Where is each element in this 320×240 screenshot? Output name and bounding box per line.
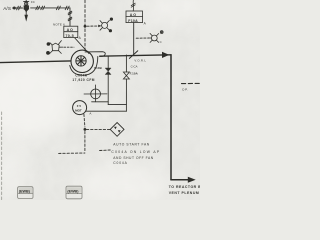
fan C004A scroll <box>70 52 105 76</box>
wire air supply stub <box>13 6 23 10</box>
svg-text:AUTO START FAN: AUTO START FAN <box>113 143 149 147</box>
wire motor link <box>86 110 126 112</box>
note text block <box>111 143 160 165</box>
flow arrow on duct <box>162 52 169 58</box>
svg-text:A/S: A/S <box>3 6 11 11</box>
svg-text:F10B: F10B <box>94 66 102 70</box>
svg-text:AO: AO <box>130 13 137 17</box>
interlock diamond <box>110 123 124 137</box>
svg-text:F.10A: F.10A <box>130 72 139 76</box>
svg-text:MOT: MOT <box>75 108 82 112</box>
junction dot signal <box>84 128 87 131</box>
controller box F10A <box>126 11 143 23</box>
match line dashed left edge <box>1 112 3 200</box>
damper actuator D2 <box>100 18 113 32</box>
paper background <box>0 0 200 200</box>
connection slash <box>129 51 137 59</box>
wire dashed signal line top <box>84 0 86 50</box>
valve F10A <box>123 72 129 79</box>
motor circle F5 MOT <box>73 101 87 115</box>
wire duct drop <box>170 55 172 180</box>
svg-text:C-P.: C-P. <box>182 87 188 91</box>
wire branch F10A <box>125 55 127 111</box>
svg-text:(EWB): (EWB) <box>67 189 79 193</box>
svg-text:VENT PLENUM: VENT PLENUM <box>169 191 200 195</box>
stamp EWB 1 <box>18 187 33 199</box>
svg-text:C004A: C004A <box>113 161 127 165</box>
pressure regulator PCV <box>24 0 29 12</box>
svg-text:F10A: F10A <box>128 19 138 23</box>
wire duct outlet run <box>171 179 189 181</box>
svg-text:NOTE 6: NOTE 6 <box>53 22 65 26</box>
svg-text:FC: FC <box>31 0 35 4</box>
svg-text:17,920 CFM: 17,920 CFM <box>72 78 95 82</box>
stamp EWB 2 <box>66 186 82 199</box>
wire control line to duct <box>133 23 135 55</box>
wire dashed link to D3 <box>136 37 148 39</box>
wire ticked line above box F10A <box>131 0 135 11</box>
wire dashed link to D2 <box>87 25 102 28</box>
fan C004A wheel <box>71 50 93 72</box>
wire dashed signal from motor <box>59 114 111 153</box>
wire actuator link <box>75 38 89 54</box>
wire dashed link to D1 <box>64 46 74 48</box>
vent arrow <box>25 12 27 20</box>
svg-text:AO: AO <box>67 28 74 32</box>
damper actuator D3 <box>149 31 163 43</box>
damper actuator D1 <box>47 41 64 55</box>
svg-text:C: C <box>160 40 162 44</box>
junction dot <box>84 25 87 28</box>
wire C-P dashed stub <box>182 82 201 84</box>
svg-text:(EWB): (EWB) <box>19 190 31 194</box>
svg-text:C-CA: C-CA <box>131 65 138 69</box>
wire main discharge duct <box>100 55 171 56</box>
svg-text:TO REACTOR B: TO REACTOR B <box>169 185 200 189</box>
svg-text:70-5: 70-5 <box>65 34 74 38</box>
wire inlet duct <box>0 61 71 63</box>
svg-text:AND SHUT OFF FAN: AND SHUT OFF FAN <box>113 156 153 160</box>
test crosshair <box>84 85 107 102</box>
svg-text:V.O.R.L: V.O.R.L <box>134 58 146 62</box>
valve F10B <box>105 68 111 75</box>
svg-text:A: A <box>89 112 91 116</box>
wire instrument air line with ticks <box>31 6 72 26</box>
svg-text:C004A ON LOW ΔP: C004A ON LOW ΔP <box>111 150 160 154</box>
svg-text:F 5: F 5 <box>77 104 82 108</box>
controller box 70-5 <box>64 26 78 37</box>
destination arrow <box>188 177 196 183</box>
wire branch F10B <box>92 56 127 105</box>
